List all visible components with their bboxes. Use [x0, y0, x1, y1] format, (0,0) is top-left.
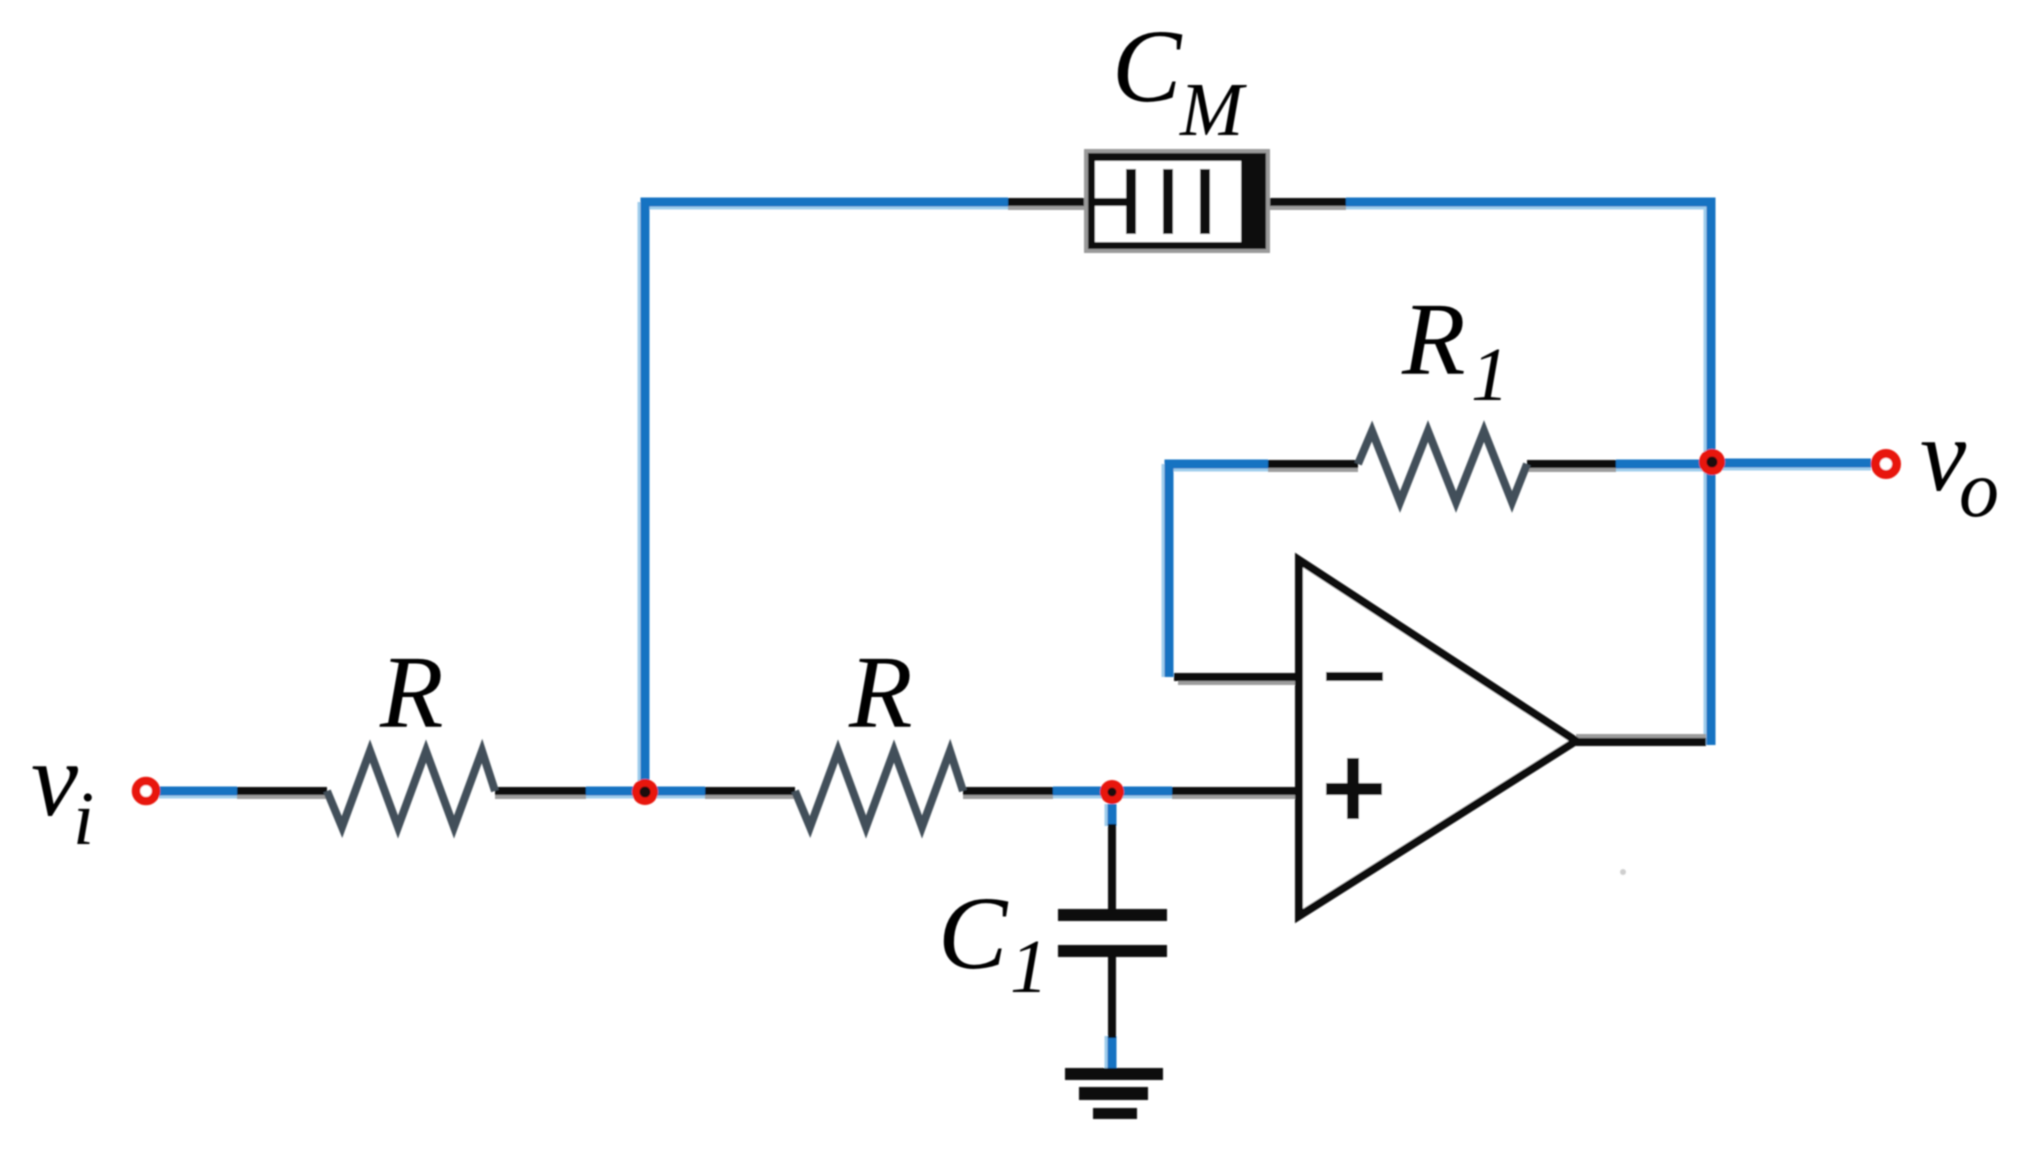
- wire: short blue below node B: [1108, 804, 1117, 826]
- stray dot artifact: [1620, 869, 1626, 875]
- node B junction dot: [1100, 780, 1124, 804]
- wire: short blue above ground: [1108, 1036, 1117, 1069]
- memcapacitor CM outer gray outline: [1084, 149, 1270, 253]
- output node junction dot: [1699, 449, 1725, 475]
- wire: R1 left lead (black): [1268, 460, 1358, 468]
- memcapacitor CM plate 3: [1200, 169, 1210, 234]
- wire: R2 left lead (black): [705, 787, 795, 795]
- node A junction dot: [632, 779, 658, 805]
- ground bar 2: [1079, 1087, 1148, 1100]
- wire: node A to R2 left lead (blue): [645, 787, 705, 796]
- op-amp U1 triangle: [1299, 560, 1576, 916]
- wire: lead vi to R (black): [237, 787, 327, 795]
- resistor R (input): [327, 751, 495, 827]
- capacitor C1 top plate: [1058, 909, 1167, 921]
- resistor R1 (feedback): [1358, 431, 1527, 502]
- svg-text:1: 1: [1010, 925, 1048, 1009]
- svg-text:C: C: [1112, 9, 1183, 124]
- wire: memristor left lead (black): [1008, 198, 1088, 206]
- wire: R2 right lead (black): [963, 787, 1053, 795]
- op-amp minus sign: [1326, 672, 1383, 681]
- svg-text:i: i: [73, 777, 94, 861]
- wire: C1 bottom lead (black): [1108, 957, 1116, 1038]
- svg-text:R: R: [379, 635, 444, 750]
- wire: op-amp output lead (black): [1576, 738, 1706, 746]
- terminal vo: [1876, 454, 1897, 475]
- svg-text:v: v: [31, 721, 79, 838]
- wire: input stub from vi terminal (blue): [159, 787, 237, 796]
- wire: node B horizontal segment (blue): [1053, 787, 1172, 796]
- ground bar 3: [1093, 1108, 1137, 1119]
- op-amp plus sign horizontal: [1326, 783, 1382, 795]
- wire: R1 right lead (black): [1527, 460, 1616, 468]
- wire: R1 right lead to output node (blue): [1616, 460, 1711, 469]
- resistor R (second): [795, 751, 963, 827]
- wire: feedback left riser from R1 to minus input (blue): [1169, 464, 1268, 677]
- memcapacitor CM plate 1: [1126, 169, 1136, 234]
- svg-text:o: o: [1959, 446, 1999, 534]
- memcapacitor CM body box: [1088, 153, 1266, 249]
- wire: op-amp plus input lead (black): [1172, 787, 1299, 795]
- svg-text:R: R: [1401, 282, 1466, 397]
- wire: op-amp minus input lead (black): [1174, 673, 1299, 681]
- wire: top wire right part and right riser (blue): [1346, 202, 1711, 745]
- svg-text:R: R: [848, 635, 913, 750]
- wire: C1 top lead (black): [1108, 824, 1116, 909]
- wire: node A riser and top wire left part (blue): [586, 202, 1008, 791]
- terminal vi: [136, 781, 156, 801]
- wire: gray shadow under black leads: [237, 208, 1706, 797]
- capacitor C1 bottom plate: [1058, 945, 1167, 957]
- memcapacitor CM white window: [1095, 161, 1241, 242]
- svg-text:1: 1: [1471, 333, 1509, 417]
- svg-text:C: C: [938, 876, 1009, 991]
- memcapacitor CM internal lead: [1092, 198, 1130, 206]
- op-amp plus sign vertical: [1347, 758, 1359, 819]
- svg-text:M: M: [1179, 68, 1247, 152]
- wire: R right lead (black): [495, 787, 586, 795]
- ground bar 1: [1065, 1068, 1163, 1080]
- wire: blue halo underlay: [159, 202, 1871, 1069]
- memcapacitor CM plate 2: [1163, 169, 1173, 234]
- wire: memristor right lead (black): [1266, 198, 1346, 206]
- wire: output node to vo terminal (blue): [1711, 459, 1871, 468]
